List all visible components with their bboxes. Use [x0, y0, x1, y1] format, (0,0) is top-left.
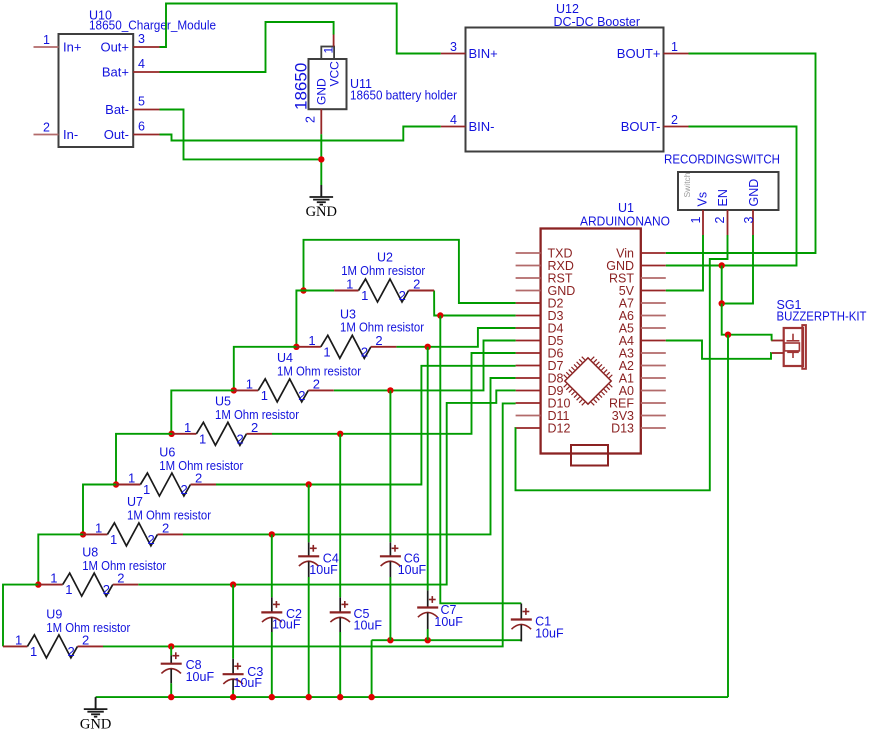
svg-text:3: 3: [138, 32, 145, 46]
pin U1 A1 right: [619, 372, 666, 386]
pin U1 D9 left: [516, 384, 564, 398]
wire gnd vertical to bus: [727, 335, 729, 697]
wire C3 top vertical: [232, 585, 234, 659]
pin U1 RXD left: [516, 259, 574, 273]
label U7 value: [127, 509, 211, 523]
label BUZZERPTH-KIT: [777, 309, 867, 324]
svg-text:2: 2: [43, 121, 50, 135]
node C8 bus: [168, 694, 174, 700]
pin 2 SG1: [771, 352, 784, 354]
wire chain U8-U9: [3, 585, 38, 647]
label U4 value: [277, 365, 361, 379]
label U10 value 18650_Charger_Module: [89, 19, 216, 33]
wire gnd link: [721, 266, 723, 304]
U1 chip diamond: [564, 357, 613, 406]
resistor U9: [3, 632, 103, 659]
svg-text:2: 2: [313, 376, 320, 391]
wire chain U7-U8: [38, 534, 83, 584]
svg-text:2: 2: [375, 333, 382, 348]
pin U1 A6 right: [619, 309, 666, 323]
node C6 bottom node: [387, 637, 393, 643]
svg-text:2: 2: [237, 431, 244, 446]
node feed bus: [368, 694, 374, 700]
svg-text:EN: EN: [716, 189, 730, 206]
svg-text:2: 2: [68, 644, 75, 659]
pin U1 A0 right: [619, 384, 666, 398]
svg-text:ARDUINONANO: ARDUINONANO: [580, 214, 670, 229]
svg-text:2: 2: [671, 113, 678, 127]
pin 2 switch EN: [713, 189, 730, 235]
svg-text:GND: GND: [80, 717, 111, 733]
wire C3 bottom to bus: [232, 690, 234, 697]
wire C7 top vertical: [427, 347, 429, 591]
pin U1 3V3 right: [612, 409, 666, 423]
svg-text:D12: D12: [548, 422, 571, 436]
svg-text:2: 2: [399, 288, 406, 303]
wire U9.2 to D10: [103, 403, 516, 646]
buzzer SG1 body: [784, 325, 806, 369]
svg-text:1: 1: [128, 471, 135, 486]
label Switch small: [682, 172, 692, 197]
wire U2.2 to D3: [434, 291, 515, 316]
svg-text:1: 1: [261, 388, 268, 403]
svg-text:2: 2: [713, 217, 727, 224]
svg-text:1M Ohm resistor: 1M Ohm resistor: [46, 621, 130, 635]
capacitor C5: [330, 597, 383, 632]
wire ground bus: [96, 696, 728, 698]
resistor U6: [116, 471, 216, 498]
node C3 top node: [230, 581, 236, 587]
wire C2 top vertical: [271, 534, 273, 597]
label U7 name: [127, 495, 143, 509]
svg-text:1: 1: [671, 40, 678, 54]
label U11 value 18650 battery holder: [350, 89, 457, 103]
wire U5.2 to D6: [272, 353, 516, 434]
wire C5 top vertical: [339, 434, 341, 598]
pin U1 GND left: [516, 284, 576, 298]
pin 2 U12 BOUT-: [621, 113, 689, 134]
node U7 left node: [80, 531, 86, 537]
pin U1 D7 left: [516, 359, 564, 373]
svg-text:10uF: 10uF: [398, 563, 427, 577]
svg-text:BIN-: BIN-: [469, 119, 495, 134]
wire chain U6-U7: [83, 485, 116, 535]
node C6 top node: [387, 387, 393, 393]
pin U1 GND right: [606, 259, 666, 273]
node C4 bus: [306, 694, 312, 700]
svg-text:2: 2: [413, 277, 420, 292]
node gnd link junction: [719, 300, 725, 306]
svg-text:In+: In+: [63, 40, 81, 55]
svg-text:1: 1: [322, 47, 336, 54]
pin U1 D3 left: [516, 309, 564, 323]
wire D3 down to C1 top: [440, 316, 521, 604]
capacitor C6: [380, 542, 427, 577]
pin U1 A4 right: [619, 334, 666, 348]
svg-text:GND: GND: [306, 204, 337, 220]
svg-text:1M Ohm resistor: 1M Ohm resistor: [215, 408, 299, 422]
wire BOUT- to GND rail: [666, 127, 797, 266]
wire C8 bottom to bus: [170, 683, 172, 697]
svg-text:2: 2: [251, 420, 258, 435]
switch SW RECORDINGSWITCH box: [678, 172, 779, 210]
wire U3.2 to D4: [396, 328, 515, 347]
svg-text:U3: U3: [340, 308, 356, 322]
pin U1 D2 left: [516, 297, 564, 311]
wire chain U2-U3: [296, 291, 303, 347]
wire switch Vs to 5V: [666, 235, 703, 291]
svg-text:Bat-: Bat-: [105, 102, 129, 117]
svg-text:1M Ohm resistor: 1M Ohm resistor: [127, 509, 211, 523]
svg-text:DC-DC Booster: DC-DC Booster: [554, 15, 641, 29]
pin U1 RST left: [516, 272, 573, 286]
svg-text:2: 2: [304, 116, 318, 123]
pin U1 D4 left: [516, 322, 564, 336]
svg-text:18650: 18650: [292, 63, 311, 110]
pin U1 D12 left: [516, 422, 571, 436]
wire chain U5-U6: [116, 434, 172, 485]
node gnd rail junction: [719, 262, 725, 268]
node battery gnd junction: [318, 156, 324, 162]
capacitor C2: [261, 597, 302, 632]
svg-text:2: 2: [361, 344, 368, 359]
svg-text:3: 3: [450, 40, 457, 54]
label ARDUINONANO: [580, 214, 670, 229]
svg-text:10uF: 10uF: [186, 670, 215, 684]
label RECORDINGSWITCH: [664, 152, 780, 167]
pin 1 U10 In+: [34, 33, 82, 55]
svg-text:10uF: 10uF: [234, 676, 263, 690]
svg-text:1: 1: [246, 376, 253, 391]
pin U1 D6 left: [516, 347, 564, 361]
pin U1 TXD left: [516, 247, 573, 261]
svg-text:BOUT-: BOUT-: [621, 119, 661, 134]
svg-text:VCC: VCC: [328, 61, 342, 87]
svg-text:2: 2: [103, 582, 110, 597]
svg-text:Out+: Out+: [100, 40, 129, 55]
svg-text:1: 1: [50, 571, 57, 586]
ground: [80, 697, 111, 732]
U1 crystal rect: [571, 445, 608, 466]
pin U1 A3 right: [619, 347, 666, 361]
wire U7.2 to D8: [183, 378, 516, 534]
svg-text:5: 5: [138, 95, 145, 109]
node C7 bottom node: [425, 637, 431, 643]
svg-text:U9: U9: [46, 608, 62, 622]
pin 1 switch Vs: [689, 192, 710, 235]
pin U1 REF right: [609, 397, 666, 411]
node C5 top node: [337, 431, 343, 437]
svg-text:18650 battery holder: 18650 battery holder: [350, 89, 457, 103]
svg-text:1: 1: [65, 582, 72, 597]
svg-text:1M Ohm resistor: 1M Ohm resistor: [340, 321, 424, 335]
wire U4.2 to D5: [334, 341, 516, 391]
wire Out- to BIN-: [160, 127, 441, 141]
svg-text:Vs: Vs: [696, 192, 710, 207]
svg-text:GND: GND: [315, 78, 329, 105]
label U8 value: [82, 559, 166, 573]
pin 1 U12 BOUT+: [617, 40, 689, 61]
pin 2 U11 GND: [320, 109, 322, 134]
pin U1 D8 left: [516, 372, 564, 386]
node C3 bus: [230, 694, 236, 700]
node U8 left node: [35, 581, 41, 587]
svg-text:2: 2: [181, 482, 188, 497]
label U10: [89, 9, 112, 23]
svg-text:2: 2: [162, 520, 169, 535]
label U11 pin2 number: [304, 116, 318, 123]
capacitor C7: [417, 590, 463, 629]
node U4 left node: [231, 387, 237, 393]
svg-text:1: 1: [361, 288, 368, 303]
label U11: [350, 77, 372, 91]
pin 6 U10 Out-: [104, 120, 160, 143]
svg-text:18650_Charger_Module: 18650_Charger_Module: [89, 19, 216, 33]
svg-text:4: 4: [138, 57, 145, 71]
svg-text:1: 1: [15, 632, 22, 647]
wire C4 top vertical: [308, 485, 310, 543]
capacitor C1: [511, 604, 564, 642]
svg-text:Out-: Out-: [104, 127, 129, 142]
wire Bat- to GND node: [160, 110, 322, 160]
svg-text:1M Ohm resistor: 1M Ohm resistor: [277, 365, 361, 379]
label U4 name: [277, 351, 293, 365]
wire C6 top vertical: [389, 390, 391, 542]
wire chain U4-U5: [171, 390, 234, 433]
svg-text:2: 2: [298, 388, 305, 403]
pin U1 5V right: [619, 284, 666, 298]
svg-text:D13: D13: [611, 422, 634, 436]
node C2 bus: [269, 694, 275, 700]
capacitor C8: [161, 652, 215, 684]
svg-text:10uF: 10uF: [434, 615, 463, 629]
node U3 left node: [293, 344, 299, 350]
pin U1 A7 right: [619, 297, 666, 311]
svg-text:1: 1: [95, 520, 102, 535]
svg-text:1: 1: [110, 532, 117, 547]
label U9 name: [46, 608, 62, 622]
wire cap bottom feed to bus: [371, 640, 373, 697]
pin U1 RST right: [609, 272, 666, 286]
svg-text:1: 1: [346, 277, 353, 292]
battery holder U11 body: [309, 47, 347, 110]
svg-text:1: 1: [199, 431, 206, 446]
pin 3 switch GND: [742, 179, 761, 235]
svg-text:U12: U12: [556, 2, 579, 16]
wire A4 to buzzer pin2: [666, 341, 771, 359]
svg-text:BUZZERPTH-KIT: BUZZERPTH-KIT: [777, 309, 867, 324]
label U3 name: [340, 308, 356, 322]
resistor U3: [296, 333, 396, 360]
pin 1 SG1: [771, 340, 784, 342]
svg-text:1: 1: [689, 217, 703, 224]
resistor U2: [334, 277, 434, 304]
svg-text:2: 2: [148, 532, 155, 547]
svg-text:1: 1: [43, 33, 50, 47]
wire U6.2 to D7: [216, 366, 516, 485]
label U6 value: [159, 459, 243, 473]
pin 5 U10 Bat-: [105, 95, 159, 118]
svg-text:GND: GND: [747, 179, 761, 207]
svg-text:10uF: 10uF: [535, 627, 564, 641]
node C2 top node: [269, 531, 275, 537]
wire BOUT+ to Vin: [666, 54, 816, 254]
svg-text:In-: In-: [63, 127, 78, 142]
wire C8 top vertical: [170, 646, 172, 655]
resistor U8: [38, 571, 138, 598]
svg-text:3: 3: [742, 217, 756, 224]
wire Out+ to BIN+: [160, 4, 441, 54]
label U6 name: [159, 446, 175, 460]
node U2 left node: [300, 287, 306, 293]
pin U1 D11 left: [516, 409, 570, 423]
wire battery GND down: [320, 134, 322, 185]
svg-text:4: 4: [450, 113, 457, 127]
svg-text:10uF: 10uF: [354, 619, 383, 633]
wire switch GND down: [722, 235, 753, 304]
svg-text:Switch: Switch: [682, 172, 692, 197]
pin 1 U11 VCC: [322, 34, 336, 54]
wire Bat+ to battery VCC: [160, 22, 334, 72]
wire C6 bottom: [389, 577, 391, 640]
node C7 top node: [425, 344, 431, 350]
wire switch EN to D12: [516, 235, 728, 490]
label U5 name: [215, 395, 231, 409]
wire gnd to buzzer pin1: [722, 304, 772, 341]
pin U1 D5 left: [516, 334, 564, 348]
IC U10 18650_Charger_Module box: [59, 34, 134, 147]
wire C2 bottom to bus: [271, 632, 273, 697]
svg-text:1M Ohm resistor: 1M Ohm resistor: [159, 459, 243, 473]
svg-text:U8: U8: [82, 546, 98, 560]
svg-text:U5: U5: [215, 395, 231, 409]
svg-text:10uF: 10uF: [309, 563, 338, 577]
node C5 bus: [337, 694, 343, 700]
node C8 top node: [168, 643, 174, 649]
pin 4 U10 Bat+: [102, 57, 160, 80]
svg-text:U2: U2: [377, 251, 393, 265]
wire U8.2 to D9: [138, 390, 515, 584]
wire U2 left link: [304, 290, 335, 292]
pin 2 U10 In-: [34, 121, 79, 143]
label U12: [556, 2, 579, 16]
svg-text:RECORDINGSWITCH: RECORDINGSWITCH: [664, 152, 780, 167]
svg-text:6: 6: [138, 120, 145, 134]
IC U1 ARDUINONANO box: [541, 229, 641, 454]
svg-text:1: 1: [184, 420, 191, 435]
svg-text:1: 1: [30, 644, 37, 659]
svg-text:1M Ohm resistor: 1M Ohm resistor: [341, 264, 425, 278]
node D3 node: [437, 312, 443, 318]
svg-text:U6: U6: [159, 446, 175, 460]
pin U1 A5 right: [619, 322, 666, 336]
svg-text:1M Ohm resistor: 1M Ohm resistor: [82, 559, 166, 573]
node C4 top node: [306, 481, 312, 487]
svg-text:U7: U7: [127, 495, 143, 509]
capacitor C3: [223, 659, 264, 690]
label U3 value: [340, 321, 424, 335]
label U11 VCC pin text: [328, 61, 342, 87]
node buzzer gnd junction: [725, 332, 731, 338]
pin U1 Vin right: [616, 247, 666, 261]
wire cap bottom line: [372, 639, 522, 641]
label U5 value: [215, 408, 299, 422]
svg-text:1: 1: [308, 333, 315, 348]
pin U1 D10 left: [516, 397, 571, 411]
ground: [306, 185, 337, 220]
pin 3 U10 Out+: [100, 32, 159, 55]
wire C5 bottom to bus: [339, 632, 341, 697]
svg-text:BOUT+: BOUT+: [617, 46, 661, 61]
label U8 name: [82, 546, 98, 560]
svg-text:1: 1: [143, 482, 150, 497]
pin U1 D13 right: [611, 422, 666, 436]
svg-text:Bat+: Bat+: [102, 65, 129, 80]
node U6 left node: [113, 481, 119, 487]
label U11 18650 text: [292, 63, 311, 110]
resistor U7: [83, 520, 183, 547]
resistor U4: [234, 376, 334, 403]
svg-text:BIN+: BIN+: [469, 46, 498, 61]
pin 4 U12 BIN-: [441, 113, 495, 134]
label U9 value: [46, 621, 130, 635]
svg-text:10uF: 10uF: [272, 618, 301, 632]
pin U1 A2 right: [619, 359, 666, 373]
label U11 GND pin text: [315, 78, 329, 105]
svg-text:U4: U4: [277, 351, 293, 365]
IC U12 DC-DC Booster box: [466, 28, 664, 152]
label U12 value DC-DC Booster: [554, 15, 641, 29]
resistor U5: [172, 420, 272, 447]
capacitor C4: [298, 542, 339, 577]
label U1: [618, 201, 634, 215]
wire chain U3-U4: [234, 347, 297, 391]
wire D2 to U2.1: [304, 240, 516, 303]
node U5 left node: [168, 431, 174, 437]
label SG1: [777, 298, 802, 312]
wire C7 bottom: [427, 629, 429, 640]
pin 3 U12 BIN+: [441, 40, 498, 61]
label U2 value: [341, 264, 425, 278]
svg-text:1: 1: [323, 344, 330, 359]
wire C4 bottom to bus: [308, 577, 310, 697]
label U2 name: [377, 251, 393, 265]
